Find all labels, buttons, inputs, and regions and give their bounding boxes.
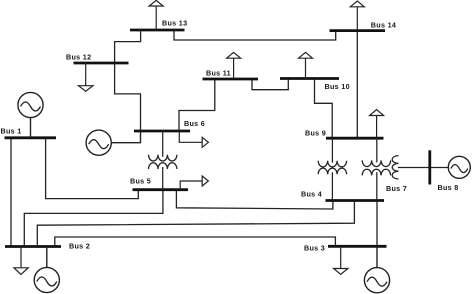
wire Bus3-Bus4 <box>376 201 378 247</box>
svg-text:Bus 7: Bus 7 <box>386 184 407 193</box>
svg-text:Bus 13: Bus 13 <box>162 18 187 27</box>
svg-text:Bus 1: Bus 1 <box>1 127 22 136</box>
transformer T5-6 <box>149 131 177 190</box>
load arrow bus 5 (right) <box>180 176 208 190</box>
bus 10 <box>280 77 339 80</box>
bus 3 <box>328 245 387 248</box>
bus 14 <box>330 29 386 32</box>
wire Bus2-Bus5 <box>24 190 163 247</box>
bus 2 <box>5 245 61 248</box>
bus 1 <box>5 136 57 139</box>
wire Bus10-Bus11 <box>252 79 288 90</box>
load arrow bus 6 (right) <box>179 131 208 147</box>
wire Bus2-Bus3 <box>55 237 336 247</box>
svg-text:Bus 2: Bus 2 <box>69 241 90 250</box>
generator G2 at bus 2 <box>34 247 59 293</box>
load arrow bus 2 (down) <box>14 247 28 275</box>
bus 13 <box>130 29 185 32</box>
load arrow bus 3 (down) <box>334 246 348 274</box>
wire Bus4-Bus5 <box>176 190 333 209</box>
load arrow bus 9 <box>370 110 384 139</box>
wire Bus1-Bus2 <box>10 138 12 247</box>
svg-text:Bus 14: Bus 14 <box>371 20 396 29</box>
generator G3 at bus 3 <box>364 246 389 293</box>
load arrow bus 12 (down) <box>79 63 94 91</box>
svg-text:Bus 6: Bus 6 <box>184 119 205 128</box>
svg-text:Bus 8: Bus 8 <box>438 183 459 192</box>
wire Bus6-Bus11 <box>179 79 215 131</box>
load arrow bus 11 <box>227 52 241 79</box>
svg-text:Bus 10: Bus 10 <box>325 82 350 91</box>
bus 6 <box>134 130 190 133</box>
bus 5 <box>133 188 189 191</box>
bus 11 <box>203 78 259 81</box>
wire Bus9-Bus14 <box>356 31 358 139</box>
bus 9 <box>326 137 384 140</box>
svg-text:Bus 12: Bus 12 <box>66 53 91 62</box>
generator G1 at bus 1 <box>18 92 43 137</box>
transformer T4-9 <box>318 138 346 200</box>
wire Bus8-generator <box>430 167 449 169</box>
generator G8 at bus 8 <box>448 156 470 178</box>
transformer T7 (three-winding) <box>362 138 398 200</box>
svg-text:Bus 11: Bus 11 <box>206 68 231 77</box>
generator G6 at bus 6 <box>86 130 140 155</box>
bus 4 <box>326 199 385 202</box>
svg-text:Bus 4: Bus 4 <box>301 189 322 198</box>
bus 8 <box>428 150 431 184</box>
load arrow bus 13 <box>149 0 163 30</box>
svg-text:Bus 5: Bus 5 <box>130 176 151 185</box>
wire Bus1-Bus5 <box>46 138 139 199</box>
wire Bus2-Bus4 <box>37 201 354 247</box>
svg-text:Bus 9: Bus 9 <box>305 128 326 137</box>
wire Bus6-Bus12 <box>115 63 141 131</box>
load arrow bus 14 <box>350 1 364 31</box>
wire Bus9-Bus10 <box>315 79 333 138</box>
bus 12 <box>74 62 129 65</box>
wire Bus7-Bus8 <box>398 167 430 169</box>
wire Bus12-Bus13 <box>115 30 141 63</box>
wire Bus13-Bus14 <box>174 30 336 40</box>
load arrow bus 10 <box>299 52 313 78</box>
svg-text:Bus 3: Bus 3 <box>304 243 325 252</box>
